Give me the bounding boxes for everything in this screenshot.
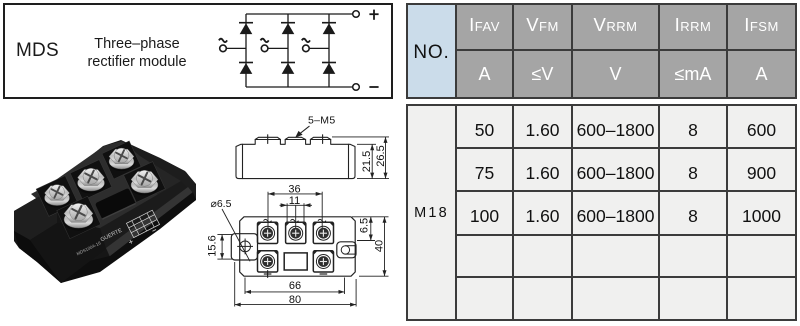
svg-text:11: 11 xyxy=(289,195,300,207)
svg-text:80: 80 xyxy=(289,294,301,306)
svg-text:⌀6.5: ⌀6.5 xyxy=(211,198,232,210)
svg-text:26.5: 26.5 xyxy=(375,145,387,166)
svg-text:40: 40 xyxy=(374,240,386,252)
svg-text:21.5: 21.5 xyxy=(361,151,373,172)
svg-text:36: 36 xyxy=(288,183,300,195)
svg-text:66: 66 xyxy=(289,280,301,292)
svg-text:15.6: 15.6 xyxy=(207,235,219,256)
svg-text:6.5: 6.5 xyxy=(358,218,370,233)
svg-text:5–M5: 5–M5 xyxy=(308,115,335,127)
